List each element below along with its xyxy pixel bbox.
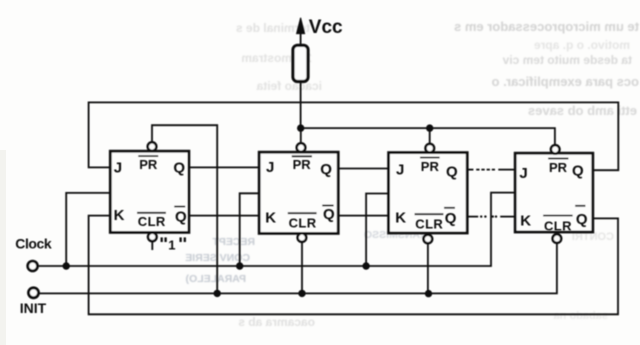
wire FF1 clock pin to clock line (66, 193, 110, 266)
svg-text:J: J (519, 165, 527, 182)
wire top feedback: FF4 Q output to FF1 J input (89, 102, 619, 170)
svg-text:K: K (114, 207, 125, 224)
svg-text:PARALELO): PARALELO) (186, 273, 246, 285)
wire FF1 CLR stub (tied to logic 1) (151, 241, 153, 250)
svg-text:K: K (395, 210, 406, 227)
bubble FF1 PR (148, 142, 157, 151)
overbar FF2 PR (292, 155, 312, 157)
wire FF1 Q to FF2 J (189, 166, 259, 168)
svg-text:ocs para exemplificar. o: ocs para exemplificar. o (492, 74, 639, 89)
svg-text:1: 1 (168, 237, 175, 252)
wire INIT line: INIT terminal to FF4 CLR bubble (39, 244, 557, 294)
wire bottom feedback: FF4 Qbar output to FF1 K input (89, 216, 618, 315)
wire Vcc to resistor R1 (300, 31, 302, 46)
overbar FF1 Qbar (174, 206, 185, 208)
svg-text:ta desde muito tem civ: ta desde muito tem civ (502, 53, 632, 67)
value label quote marks around 1 at FF1 CLR (162, 237, 185, 242)
wire FF2 Qbar to FF3 K (338, 215, 388, 217)
overbar FF4 CLR (543, 215, 572, 217)
svg-text:CLR: CLR (289, 216, 317, 231)
svg-text:Q: Q (175, 208, 187, 225)
bubble FF2 PR (297, 143, 306, 152)
junction INIT line at FF2 CLR (298, 290, 305, 297)
junction PR rail at FF3 (426, 124, 433, 131)
bubble FF4 PR (551, 145, 560, 154)
svg-text:CLR: CLR (138, 214, 166, 229)
junction clock line at FF1 (62, 262, 69, 269)
svg-text:INIT: INIT (20, 300, 47, 316)
svg-text:Q: Q (173, 160, 185, 177)
svg-text:PR: PR (421, 159, 440, 174)
bubble FF3 PR (426, 144, 435, 153)
svg-text:CLR: CLR (415, 216, 443, 231)
overbar FF3 Qbar (444, 207, 455, 209)
overbar FF2 Qbar (322, 205, 333, 207)
svg-text:Q: Q (572, 162, 584, 179)
bubble FF3 CLR (424, 235, 433, 244)
svg-text:CLR: CLR (544, 218, 572, 233)
junction PR rail at Vcc resistor (297, 124, 304, 131)
svg-text:Clock: Clock (15, 236, 52, 252)
svg-text:J: J (396, 162, 404, 179)
svg-text:K: K (265, 210, 276, 227)
svg-text:Q: Q (446, 164, 458, 181)
wire FF3 CLR to INIT line (427, 243, 429, 293)
bubble FF4 CLR (553, 234, 562, 243)
flip-flop FF3 box (389, 153, 468, 233)
overbar FF3 PR (420, 157, 440, 159)
svg-text:PR: PR (139, 157, 158, 172)
junction clock line at FF3 (362, 262, 369, 269)
svg-text:J: J (114, 160, 122, 177)
wire FF1 Qbar to FF2 K (189, 215, 259, 217)
svg-text:RECEPT: RECEPT (212, 236, 255, 248)
overbar FF1 PR (138, 155, 158, 157)
terminal INIT input (29, 288, 39, 298)
svg-text:te um microprocessador em s: te um microprocessador em s (454, 19, 639, 34)
junction clock line at FF2 (236, 262, 243, 269)
overbar FF4 PR (548, 158, 568, 160)
bubble FF1 CLR (148, 233, 157, 242)
wire clock line: Clock terminal to FF4 clock pin (38, 193, 516, 266)
wire FF1 PR to INIT line (152, 125, 217, 293)
svg-text:icacao feita: icacao feita (256, 79, 322, 93)
svg-text:etti amb ob saves: etti amb ob saves (528, 103, 637, 118)
junction INIT line at FF3 CLR (425, 290, 432, 297)
flip-flop FF2 box (259, 152, 338, 233)
svg-text:K: K (520, 212, 531, 229)
wire FF3 Qbar to FF4 K (dash-dot continuation) (467, 216, 478, 218)
svg-text:Q: Q (445, 210, 457, 227)
svg-text:PR: PR (549, 160, 568, 175)
wire FF3 clock pin to clock line (366, 194, 389, 267)
svg-text:Q: Q (323, 206, 335, 223)
svg-text:Q: Q (576, 211, 588, 228)
dots of dash-dot wire FF3 Qbar to FF4 K (480, 215, 482, 217)
flip-flop FF1 box (110, 151, 189, 232)
bubble FF2 CLR (298, 233, 307, 242)
svg-text:sabado na: sabado na (553, 310, 608, 322)
overbar FF1 CLR (137, 212, 166, 214)
terminal Clock input (28, 261, 38, 271)
svg-text:motivo. o q. apre: motivo. o q. apre (534, 38, 630, 52)
wire resistor R1 to PR rail (300, 81, 302, 128)
wire FF2 CLR to INIT line (301, 242, 303, 294)
svg-text:Vcc: Vcc (309, 17, 343, 38)
svg-text:J: J (266, 159, 274, 176)
svg-text:PR: PR (293, 157, 312, 172)
resistor R1 (293, 45, 308, 81)
flip-flop FF4 box (515, 153, 593, 232)
overbar FF4 Qbar (575, 205, 585, 207)
ghost bleed-through text (page reverse side, mirrored) (185, 19, 639, 329)
junction INIT line at FF1 PR (214, 290, 221, 297)
overbar FF3 CLR (415, 213, 444, 215)
wire PR rail to FF2/FF3/FF4 PR bubbles (301, 128, 555, 145)
svg-text:oacamra ab s: oacamra ab s (238, 315, 315, 329)
wire FF2 Q to FF3 J (338, 168, 388, 170)
overbar FF2 CLR (288, 212, 317, 214)
wire FF3 Q to FF4 J (dashed continuation) (467, 169, 473, 171)
power Vcc arrow (297, 18, 305, 34)
svg-text:Q: Q (320, 161, 332, 178)
wire FF2 clock pin to clock line (240, 193, 260, 266)
